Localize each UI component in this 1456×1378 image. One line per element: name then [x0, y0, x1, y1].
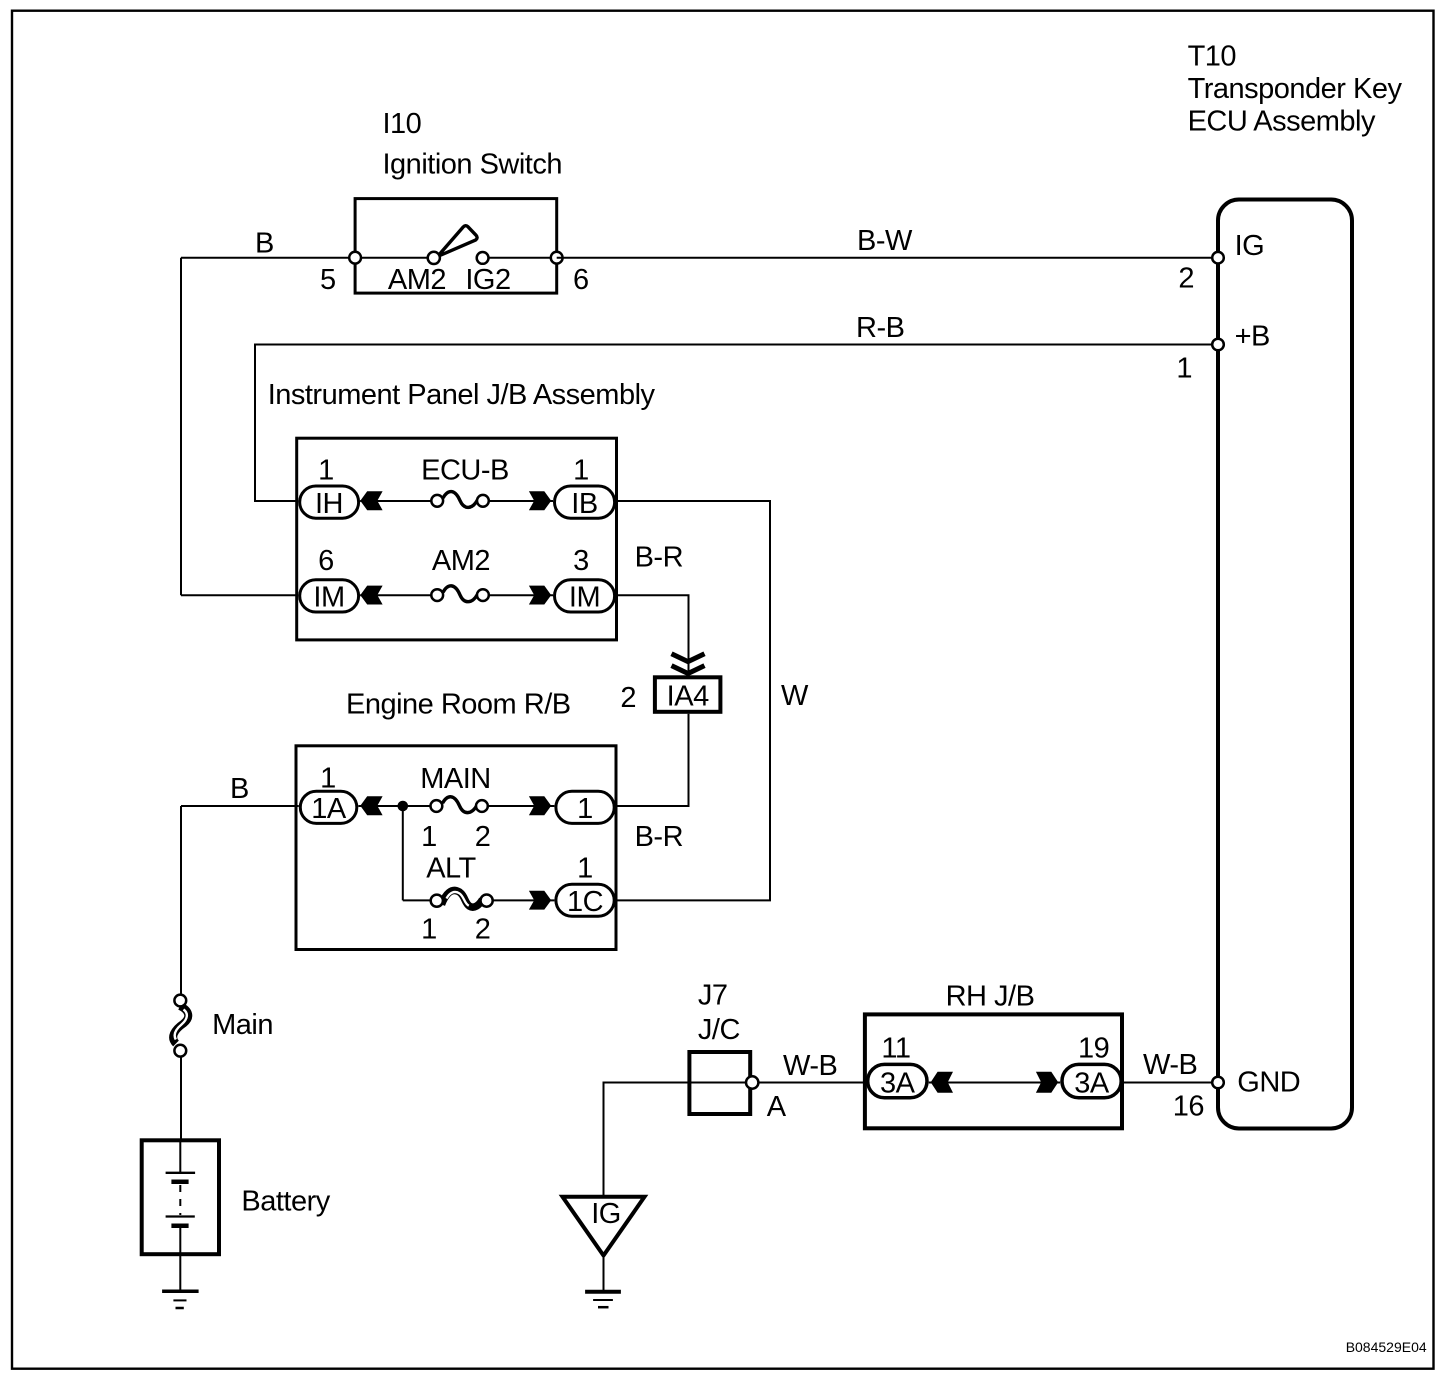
arrow into connector 1 [529, 796, 551, 815]
svg-text:IG: IG [591, 1198, 621, 1230]
wire ALT link to 1C [487, 899, 555, 901]
battery plate short thick top [171, 1179, 188, 1184]
arrow into 3A left [931, 1072, 953, 1093]
pin +B terminal circle [1212, 339, 1224, 351]
svg-text:IH: IH [315, 488, 343, 520]
svg-text:1: 1 [573, 454, 589, 486]
pin GND terminal circle [1212, 1077, 1224, 1089]
battery plate short thick bottom [171, 1224, 188, 1229]
svg-text:B: B [255, 228, 274, 260]
svg-text:W-B: W-B [1143, 1049, 1197, 1081]
svg-text:B084529E04: B084529E04 [1346, 1339, 1427, 1355]
connector IM left [300, 580, 359, 612]
svg-text:6: 6 [318, 545, 334, 577]
wire IH to fuse [360, 500, 437, 502]
pin AM2 terminal circle [428, 252, 440, 264]
fusible link Main [173, 995, 188, 1057]
arrow into IM right [529, 586, 551, 605]
battery dashed center line [179, 1185, 181, 1215]
svg-text:IG: IG [1235, 230, 1265, 262]
svg-text:J/C: J/C [698, 1014, 740, 1046]
arrow into 1C [529, 891, 551, 910]
svg-text:1: 1 [577, 853, 593, 885]
ignition switch I10 body [355, 199, 557, 294]
transponder key ECU assembly T10 body [1218, 200, 1352, 1129]
ground symbol IG triangle [563, 1197, 645, 1256]
connector 1 (MAIN output) [556, 791, 614, 823]
svg-text:1: 1 [421, 914, 437, 946]
junction dot [398, 801, 409, 812]
wire B-R from IM right down to IA4 [616, 595, 688, 675]
svg-text:5: 5 [320, 264, 336, 296]
ground under battery [162, 1291, 199, 1308]
svg-text:16: 16 [1173, 1091, 1204, 1123]
fusible link ALT [431, 890, 493, 907]
arrow into IH [360, 491, 382, 510]
svg-text:W: W [781, 680, 809, 712]
connector IA4 [655, 677, 721, 712]
svg-text:R-B: R-B [856, 312, 904, 344]
svg-text:GND: GND [1237, 1066, 1300, 1098]
svg-text:IB: IB [571, 488, 597, 520]
svg-text:ECU Assembly: ECU Assembly [1188, 106, 1376, 138]
svg-text:B-W: B-W [857, 225, 913, 257]
connector 3A left [868, 1064, 927, 1097]
pin IG2 terminal circle [477, 252, 489, 264]
battery plate long top [166, 1172, 196, 1174]
wire B from left vertical to 1A [181, 805, 299, 807]
connector IM right [555, 580, 615, 612]
svg-text:IM: IM [569, 582, 600, 614]
svg-text:A: A [767, 1091, 787, 1123]
wire W from IB to 1C via right vertical [616, 501, 770, 900]
wire junction to ALT link [403, 899, 437, 901]
svg-text:3A: 3A [880, 1068, 916, 1100]
svg-text:19: 19 [1078, 1033, 1109, 1065]
wire B-W from ignition pin 6 to ECU IG pin 2 [557, 257, 1218, 259]
wire between 3A connectors [929, 1082, 1060, 1084]
fuse AM2 [431, 586, 488, 602]
svg-text:6: 6 [573, 264, 589, 296]
pin 5 terminal circle [349, 252, 361, 264]
svg-text:2: 2 [620, 682, 636, 714]
wire W-B from IG ground to J/C and RH J/B 3A [604, 1083, 866, 1196]
connector 1A [300, 791, 357, 823]
battery plate long bottom [166, 1215, 195, 1217]
wire fuse to IM right [483, 594, 553, 596]
svg-text:2: 2 [475, 914, 491, 946]
pin IG terminal circle [1212, 252, 1224, 264]
svg-text:Ignition Switch: Ignition Switch [383, 149, 563, 181]
svg-text:ECU-B: ECU-B [421, 454, 509, 486]
switch lever AM2-IG2 [438, 226, 478, 257]
fuse MAIN [431, 797, 488, 813]
wire R-B from ECU +B pin 1 to IH pin 1 [255, 345, 1218, 502]
wire B-R from IA4 down to engine room connector 1 [616, 714, 689, 806]
svg-text:+B: +B [1235, 320, 1270, 352]
wire B to IM connector pin 6 [181, 594, 298, 596]
ground under IG [585, 1292, 621, 1308]
svg-text:B-R: B-R [635, 542, 683, 574]
wire Main link to battery [180, 1050, 182, 1139]
wire junction down to ALT [402, 806, 404, 900]
svg-text:B-R: B-R [635, 821, 683, 853]
svg-text:ALT: ALT [426, 853, 476, 885]
svg-text:IA4: IA4 [667, 681, 709, 713]
svg-text:1: 1 [1176, 353, 1192, 385]
svg-text:J7: J7 [698, 980, 728, 1012]
arrow into IM left [360, 586, 382, 605]
svg-text:1: 1 [320, 763, 336, 795]
connector 3A right [1062, 1064, 1121, 1097]
svg-text:2: 2 [1178, 262, 1194, 294]
battery internal wire top [179, 1140, 181, 1172]
connector 1C [556, 884, 614, 916]
svg-text:1C: 1C [567, 886, 603, 918]
connector IH [300, 486, 359, 518]
wire fuse to IB [483, 500, 553, 502]
svg-text:Engine Room R/B: Engine Room R/B [346, 689, 571, 721]
svg-text:Battery: Battery [241, 1186, 330, 1218]
svg-text:1A: 1A [311, 793, 347, 825]
wire vertical battery feed [180, 806, 182, 995]
svg-text:3: 3 [573, 545, 589, 577]
RH J/B box [865, 1014, 1122, 1128]
svg-text:11: 11 [881, 1033, 910, 1065]
svg-text:W-B: W-B [783, 1050, 837, 1082]
junction connector J7 J/C [689, 1052, 750, 1114]
svg-text:3A: 3A [1074, 1068, 1110, 1100]
svg-text:Instrument Panel J/B Assembly: Instrument Panel J/B Assembly [268, 379, 656, 411]
svg-text:T10: T10 [1188, 41, 1236, 73]
svg-text:Transponder Key: Transponder Key [1188, 73, 1403, 105]
wire 1A to MAIN fuse [358, 805, 436, 807]
wire IG triangle to ground [603, 1258, 605, 1291]
svg-text:Main: Main [212, 1009, 273, 1041]
arrow into 1A [360, 796, 382, 815]
pin 6 terminal circle [551, 252, 563, 264]
wire W-B from 3A right to ECU GND pin 16 [1123, 1082, 1212, 1084]
instrument panel J/B assembly box [297, 438, 617, 640]
svg-text:1: 1 [577, 793, 593, 825]
svg-text:IG2: IG2 [465, 264, 510, 296]
svg-text:1: 1 [318, 454, 334, 486]
svg-text:IM: IM [313, 582, 344, 614]
battery box [142, 1140, 219, 1254]
shield chevrons above IA4 [672, 654, 705, 674]
svg-text:1: 1 [421, 821, 437, 853]
fuse ECU-B [431, 492, 488, 508]
wire MAIN fuse to connector 1 [482, 805, 555, 807]
svg-text:MAIN: MAIN [420, 763, 491, 795]
svg-text:RH J/B: RH J/B [946, 980, 1035, 1012]
pin A terminal circle [746, 1076, 758, 1088]
arrow into 3A right [1036, 1072, 1058, 1093]
svg-text:AM2: AM2 [388, 264, 446, 296]
svg-text:B: B [230, 773, 249, 805]
svg-text:AM2: AM2 [432, 545, 490, 577]
svg-text:2: 2 [475, 821, 491, 853]
wire vertical B feed from ignition row down to IM row [180, 258, 182, 596]
wire B from node B vertical to ignition switch pin 5 [181, 257, 356, 259]
arrow into IB [529, 491, 551, 510]
battery internal wire bottom [179, 1228, 181, 1291]
wire IM to fuse AM2 [360, 594, 437, 596]
svg-text:I10: I10 [383, 108, 422, 140]
engine room R/B box [296, 746, 616, 950]
connector IB [555, 486, 615, 518]
